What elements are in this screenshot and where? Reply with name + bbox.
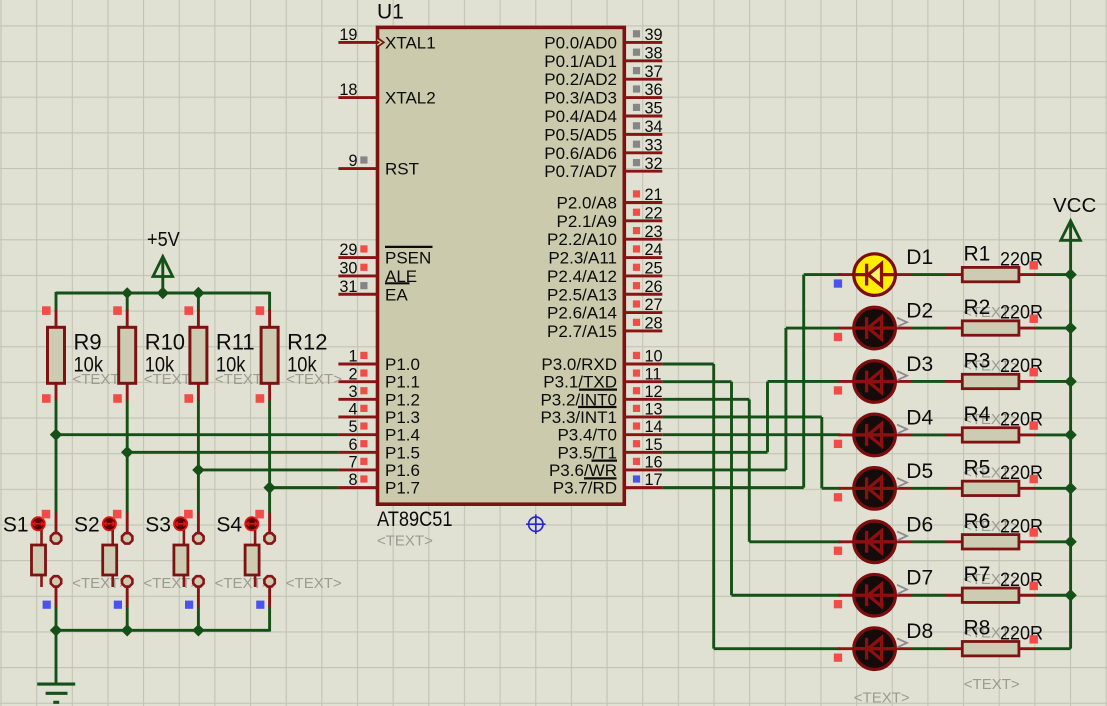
svg-text:<TEXT>: <TEXT> bbox=[286, 575, 342, 592]
pin 23 indicator square bbox=[633, 227, 640, 234]
pin 3 P1.2 stub bbox=[338, 398, 377, 401]
svg-text:R11: R11 bbox=[216, 329, 255, 354]
pin 34 indicator square bbox=[633, 122, 640, 129]
pin 8 P1.7 stub bbox=[338, 486, 377, 489]
button S1 indicator square bbox=[42, 510, 51, 519]
resistor R5 lead left bbox=[946, 487, 963, 490]
button S1 contact top bbox=[51, 533, 61, 543]
wire R10 to S2 node bbox=[126, 400, 129, 513]
svg-text:38: 38 bbox=[645, 44, 663, 62]
resistor R3 lead left bbox=[946, 380, 963, 383]
pin 30 ALE stub bbox=[338, 274, 377, 277]
LED D5 body bbox=[854, 468, 896, 510]
button S1 plunger rod bbox=[40, 528, 43, 587]
pin 28 P2.7/A15 stub bbox=[625, 330, 663, 333]
button S3 contact top bbox=[193, 533, 203, 543]
LED D2 diode symbol bbox=[854, 317, 895, 339]
svg-text:P3.3/INT1: P3.3/INT1 bbox=[540, 408, 617, 427]
pin 36 P0.3/AD3 stub bbox=[625, 96, 663, 99]
LED D7 body bbox=[854, 574, 896, 616]
pin 26 indicator square bbox=[633, 282, 640, 289]
R10 indicator square bottom bbox=[113, 394, 122, 403]
R11 indicator square top bbox=[184, 306, 193, 315]
wire P3.1 horizontal bbox=[662, 380, 731, 383]
svg-text:EA: EA bbox=[385, 285, 408, 304]
junction S1 node bbox=[50, 428, 62, 440]
svg-text:D5: D5 bbox=[906, 460, 933, 483]
LED D2 state square bbox=[834, 333, 842, 341]
wire P3.2 vertical bbox=[748, 399, 751, 541]
LED D8 state square bbox=[834, 653, 842, 661]
svg-text:19: 19 bbox=[339, 26, 357, 44]
resistor R5 lead right bbox=[1019, 487, 1036, 490]
button S2 state square bbox=[114, 601, 122, 609]
wire P3.6 vertical bbox=[784, 328, 787, 470]
junction VCC rail row D2 bbox=[1064, 322, 1076, 334]
pin 14 indicator square bbox=[633, 422, 640, 429]
pin 35 P0.4/AD4 stub bbox=[625, 115, 663, 118]
button S3 actuator bbox=[174, 517, 187, 530]
svg-text:PSEN: PSEN bbox=[385, 249, 431, 268]
resistor R3 body bbox=[962, 374, 1019, 388]
wire ground rail bbox=[56, 629, 270, 632]
svg-text:24: 24 bbox=[645, 241, 663, 259]
wire to D5 bbox=[822, 487, 841, 490]
pin 25 P2.4/A12 stub bbox=[625, 274, 663, 277]
junction +5V rail at +5V stem bbox=[157, 287, 169, 299]
pin 21 indicator square bbox=[633, 190, 640, 197]
LED D8 emission mark bbox=[897, 638, 907, 647]
svg-text:<TEXT>: <TEXT> bbox=[377, 532, 433, 549]
LED D4 lead right bbox=[893, 433, 912, 436]
svg-text:D7: D7 bbox=[906, 567, 933, 590]
svg-text:U1: U1 bbox=[377, 1, 404, 24]
svg-text:P0.1/AD1: P0.1/AD1 bbox=[544, 52, 617, 71]
pin 38 indicator square bbox=[633, 49, 640, 56]
svg-text:2: 2 bbox=[348, 365, 357, 383]
LED D2 lead right bbox=[893, 327, 912, 330]
junction ground rail bbox=[50, 624, 62, 636]
svg-text:3: 3 bbox=[348, 383, 357, 401]
wire S4 to ground rail bbox=[268, 606, 271, 632]
svg-text:R3: R3 bbox=[964, 349, 991, 372]
R6 indicator square bbox=[1030, 528, 1038, 536]
svg-text:D4: D4 bbox=[906, 406, 933, 429]
svg-text:R9: R9 bbox=[74, 329, 102, 354]
R7 indicator square bbox=[1030, 582, 1038, 590]
button S1 contact bottom bbox=[51, 576, 61, 586]
overline WR (under T1) bbox=[592, 460, 618, 462]
pin 13 indicator square bbox=[633, 405, 640, 412]
button S1 lead top bbox=[55, 513, 58, 533]
svg-text:P1.0: P1.0 bbox=[385, 355, 420, 374]
wire to D6 bbox=[749, 540, 840, 543]
resistor R1 body bbox=[962, 267, 1019, 281]
junction VCC rail row D5 bbox=[1064, 482, 1076, 494]
svg-text:P0.7/AD7: P0.7/AD7 bbox=[544, 162, 617, 181]
wire S1 to ground rail bbox=[55, 606, 58, 632]
wire P3.7 vertical bbox=[802, 275, 805, 488]
resistor R10 body bbox=[119, 327, 136, 383]
svg-text:37: 37 bbox=[645, 63, 663, 81]
LED D6 body bbox=[854, 521, 896, 563]
wire ground stem bbox=[55, 630, 58, 684]
svg-text:P2.7/A15: P2.7/A15 bbox=[547, 322, 617, 341]
svg-text:R4: R4 bbox=[964, 403, 991, 426]
R2 indicator square bbox=[1030, 315, 1038, 323]
wire to D3 bbox=[768, 380, 841, 383]
LED D2 emission mark bbox=[897, 318, 907, 327]
LED D7 lead left bbox=[839, 594, 857, 597]
pin 11 P3.1/TXD stub bbox=[625, 380, 663, 383]
button S4 contact bottom bbox=[264, 576, 274, 586]
svg-text:P2.6/A14: P2.6/A14 bbox=[547, 304, 617, 323]
pin 6 indicator square bbox=[360, 440, 367, 447]
button S3 indicator square bbox=[184, 510, 193, 519]
svg-text:P2.1/A9: P2.1/A9 bbox=[557, 212, 618, 231]
pin 29 PSEN stub bbox=[338, 256, 377, 259]
button S4 actuator bbox=[245, 517, 258, 530]
button S2 plunger rod bbox=[111, 528, 114, 587]
button S4 indicator square bbox=[255, 510, 264, 519]
resistor R8 lead left bbox=[946, 647, 963, 650]
pin 15 P3.5/T1 stub bbox=[625, 451, 663, 454]
wire D5 to R5 bbox=[912, 487, 946, 490]
wire +5V stem bbox=[161, 258, 164, 293]
svg-text:D3: D3 bbox=[906, 353, 933, 376]
svg-text:16: 16 bbox=[645, 454, 663, 472]
resistor R7 lead right bbox=[1019, 594, 1036, 597]
button S1 actuator bbox=[32, 517, 45, 530]
wire P3.5 vertical bbox=[766, 381, 769, 452]
R1 indicator square bbox=[1030, 261, 1038, 269]
pin 15 indicator square bbox=[633, 440, 640, 447]
R3 indicator square bbox=[1030, 368, 1038, 376]
pin 23 P2.2/A10 stub bbox=[625, 238, 663, 241]
svg-text:P3.7/RD: P3.7/RD bbox=[553, 479, 617, 498]
R11 indicator square bottom bbox=[184, 394, 193, 403]
LED D8 lead right bbox=[893, 647, 912, 650]
resistor R3 lead right bbox=[1019, 380, 1036, 383]
overline INT1 (under INT0) bbox=[578, 406, 617, 408]
svg-text:P0.6/AD6: P0.6/AD6 bbox=[544, 144, 617, 163]
svg-text:R10: R10 bbox=[145, 329, 185, 354]
pin 9 RST stub bbox=[338, 167, 377, 170]
wire D6 to R6 bbox=[912, 540, 946, 543]
overline INT0 (under TXD) bbox=[579, 389, 617, 391]
pin 10 indicator square bbox=[633, 352, 640, 359]
svg-text:14: 14 bbox=[645, 418, 663, 436]
svg-text:11: 11 bbox=[645, 365, 662, 383]
button S3 contact bottom bbox=[193, 576, 203, 586]
power symbol VCC bbox=[1069, 223, 1072, 241]
svg-text:29: 29 bbox=[339, 241, 357, 259]
wire rail to R12 bbox=[268, 292, 271, 311]
wire P3.3 vertical bbox=[820, 417, 823, 488]
LED D4 lead left bbox=[839, 433, 857, 436]
junction ground rail bbox=[192, 624, 204, 636]
pin 16 P3.6/WR stub bbox=[625, 469, 663, 472]
wire R12 to S4 node bbox=[268, 400, 271, 513]
button S3 lead top bbox=[197, 513, 200, 533]
resistor R12 body bbox=[261, 327, 278, 383]
svg-text:P3.0/RXD: P3.0/RXD bbox=[541, 355, 617, 374]
button S2 lead top bbox=[126, 513, 129, 533]
LED D4 emission mark bbox=[897, 425, 907, 434]
button S1 plunger body bbox=[32, 545, 46, 575]
svg-text:R6: R6 bbox=[964, 510, 991, 533]
wire D1 to R1 bbox=[912, 273, 946, 276]
wire R4 to VCC rail bbox=[1036, 433, 1071, 436]
pin 31 indicator square bbox=[360, 282, 367, 289]
junction S2 node bbox=[121, 446, 133, 458]
svg-text:P0.5/AD5: P0.5/AD5 bbox=[544, 125, 617, 144]
LED D1 state square bbox=[834, 279, 842, 287]
resistor R9 lead top bbox=[55, 310, 58, 329]
button S2 contact bottom bbox=[122, 576, 132, 586]
svg-text:10k: 10k bbox=[145, 353, 175, 376]
pin 8 indicator square bbox=[360, 475, 367, 482]
svg-text:12: 12 bbox=[645, 383, 663, 401]
LED D3 emission mark bbox=[897, 371, 907, 380]
pin 34 P0.5/AD5 stub bbox=[625, 133, 663, 136]
LED D3 diode symbol bbox=[854, 370, 895, 392]
pin 17 indicator square bbox=[633, 475, 640, 482]
button S3 plunger body bbox=[174, 545, 188, 575]
resistor R5 body bbox=[962, 481, 1019, 495]
origin marker bbox=[526, 514, 546, 534]
R9 indicator square bottom bbox=[42, 394, 51, 403]
pin 7 P1.6 stub bbox=[338, 469, 377, 472]
svg-text:4: 4 bbox=[348, 401, 357, 419]
resistor R10 lead top bbox=[126, 310, 129, 329]
resistor R6 lead right bbox=[1019, 540, 1036, 543]
ground symbol bbox=[37, 684, 75, 702]
resistor R7 body bbox=[962, 588, 1019, 602]
pin 32 indicator square bbox=[633, 159, 640, 166]
LED D4 body bbox=[854, 414, 896, 456]
junction ground rail bbox=[121, 624, 133, 636]
svg-text:18: 18 bbox=[339, 81, 357, 99]
button S1 lead bottom bbox=[55, 588, 58, 607]
LED D5 lead left bbox=[839, 487, 857, 490]
pin 21 P2.0/A8 stub bbox=[625, 201, 663, 204]
resistor R2 lead left bbox=[946, 327, 963, 330]
LED D2 body bbox=[854, 307, 896, 349]
pin 30 indicator square bbox=[360, 264, 367, 271]
resistor R11 lead bottom bbox=[197, 382, 200, 401]
LED D2 lead left bbox=[839, 327, 857, 330]
svg-text:P1.1: P1.1 bbox=[385, 373, 420, 392]
LED D5 state square bbox=[834, 493, 842, 501]
button S2 plunger body bbox=[103, 545, 117, 575]
LED D6 lead right bbox=[893, 540, 912, 543]
pin 36 indicator square bbox=[633, 85, 640, 92]
svg-text:33: 33 bbox=[645, 136, 663, 154]
junction VCC rail row D7 bbox=[1064, 589, 1076, 601]
overline PSEN bbox=[385, 246, 433, 248]
pin 38 P0.1/AD1 stub bbox=[625, 59, 663, 62]
pin 22 indicator square bbox=[633, 209, 640, 216]
resistor R4 body bbox=[962, 428, 1019, 442]
svg-text:P0.2/AD2: P0.2/AD2 bbox=[544, 70, 617, 89]
wire R7 to VCC rail bbox=[1036, 594, 1071, 597]
svg-text:S1: S1 bbox=[3, 514, 29, 537]
pin 32 P0.7/AD7 stub bbox=[625, 170, 663, 173]
LED D7 lead right bbox=[893, 594, 912, 597]
pin 24 indicator square bbox=[633, 245, 640, 252]
wire R9 to S1 node bbox=[55, 400, 58, 513]
pin 10 P3.0/RXD stub bbox=[625, 363, 663, 366]
resistor R11 lead top bbox=[197, 310, 200, 329]
svg-text:9: 9 bbox=[348, 152, 357, 170]
svg-text:P3.4/T0: P3.4/T0 bbox=[557, 426, 617, 445]
svg-text:P2.3/A11: P2.3/A11 bbox=[548, 249, 617, 268]
LED D7 diode symbol bbox=[854, 584, 895, 606]
LED D4 diode symbol bbox=[854, 424, 895, 446]
resistor R12 lead top bbox=[268, 310, 271, 329]
LED D1 body bbox=[854, 254, 896, 296]
resistor R2 body bbox=[962, 321, 1019, 335]
pin 24 P2.3/A11 stub bbox=[625, 256, 663, 259]
wire P3.7 horizontal bbox=[662, 486, 803, 489]
svg-text:S4: S4 bbox=[216, 514, 242, 537]
wire P3.1 vertical bbox=[730, 382, 733, 596]
wire P3.4 to D4 bbox=[662, 433, 840, 436]
pin 31 EA stub bbox=[338, 293, 377, 296]
wire R6 to VCC rail bbox=[1036, 540, 1071, 543]
junction VCC rail row D1 bbox=[1064, 268, 1076, 280]
pin 6 P1.5 stub bbox=[338, 451, 377, 454]
pin 28 indicator square bbox=[633, 319, 640, 326]
svg-text:31: 31 bbox=[339, 278, 357, 296]
wire D7 to R7 bbox=[912, 594, 946, 597]
svg-text:R7: R7 bbox=[964, 563, 991, 586]
LED D7 emission mark bbox=[897, 585, 907, 594]
svg-text:35: 35 bbox=[645, 100, 663, 118]
svg-text:34: 34 bbox=[645, 118, 663, 136]
wire R8 to VCC rail bbox=[1036, 647, 1071, 650]
R10 indicator square top bbox=[113, 306, 122, 315]
wire VCC rail vertical bbox=[1069, 239, 1072, 648]
svg-text:<TEXT>: <TEXT> bbox=[854, 690, 910, 706]
svg-text:D1: D1 bbox=[906, 246, 933, 269]
button S2 indicator square bbox=[113, 510, 122, 519]
pin 2 P1.1 stub bbox=[338, 380, 377, 383]
wire to D8 bbox=[714, 647, 841, 650]
svg-text:15: 15 bbox=[645, 436, 663, 454]
pin 2 indicator square bbox=[360, 369, 367, 376]
junction VCC rail row D6 bbox=[1064, 536, 1076, 548]
pin 7 indicator square bbox=[360, 458, 367, 465]
wire +5V rail bbox=[56, 292, 270, 295]
button S3 state square bbox=[185, 601, 193, 609]
svg-text:P0.0/AD0: P0.0/AD0 bbox=[544, 33, 617, 52]
button S4 plunger rod bbox=[254, 528, 257, 587]
svg-text:R5: R5 bbox=[964, 456, 991, 479]
svg-text:1: 1 bbox=[348, 348, 357, 366]
wire node S1 to P1.4 bbox=[56, 433, 338, 436]
pin 26 P2.5/A13 stub bbox=[625, 293, 663, 296]
wire R11 to S3 node bbox=[197, 400, 200, 513]
R9 indicator square top bbox=[42, 306, 51, 315]
svg-text:<TEXT>: <TEXT> bbox=[143, 575, 199, 592]
resistor R8 lead right bbox=[1019, 647, 1036, 650]
button S1 state square bbox=[43, 601, 51, 609]
LED D3 lead left bbox=[839, 380, 857, 383]
junction S4 node bbox=[263, 481, 275, 493]
pin 33 P0.6/AD6 stub bbox=[625, 151, 663, 154]
wire to D2 bbox=[786, 327, 841, 330]
wire R5 to VCC rail bbox=[1036, 487, 1071, 490]
pin 27 P2.6/A14 stub bbox=[625, 311, 663, 314]
LED D7 state square bbox=[834, 600, 842, 608]
LED D6 lead left bbox=[839, 540, 857, 543]
clock input chevron XTAL1 bbox=[376, 36, 385, 49]
pin 37 indicator square bbox=[633, 67, 640, 74]
pin 1 P1.0 stub bbox=[338, 363, 377, 366]
svg-text:7: 7 bbox=[348, 454, 357, 472]
svg-text:6: 6 bbox=[348, 436, 357, 454]
svg-text:<TEXT>: <TEXT> bbox=[215, 575, 271, 592]
LED D6 state square bbox=[834, 547, 842, 555]
svg-text:P2.4/A12: P2.4/A12 bbox=[547, 267, 617, 286]
junction S3 node bbox=[192, 464, 204, 476]
svg-text:S3: S3 bbox=[145, 514, 171, 537]
svg-text:RST: RST bbox=[385, 160, 419, 179]
pin 12 indicator square bbox=[633, 387, 640, 394]
wire D3 to R3 bbox=[912, 380, 946, 383]
LED D1 lead left bbox=[839, 273, 857, 276]
svg-text:XTAL2: XTAL2 bbox=[385, 89, 436, 108]
svg-text:P0.3/AD3: P0.3/AD3 bbox=[544, 89, 617, 108]
IC U1 AT89C51 body bbox=[378, 27, 625, 504]
button S4 plunger body bbox=[245, 545, 259, 575]
button S4 contact top bbox=[264, 533, 274, 543]
svg-text:P2.5/A13: P2.5/A13 bbox=[547, 285, 617, 304]
resistor R12 lead bottom bbox=[268, 382, 271, 401]
pin 5 P1.4 stub bbox=[338, 433, 377, 436]
wire S3 to ground rail bbox=[197, 606, 200, 632]
pin 25 indicator square bbox=[633, 264, 640, 271]
LED D1 lead right bbox=[893, 273, 912, 276]
svg-text:25: 25 bbox=[645, 260, 663, 278]
svg-text:+5V: +5V bbox=[147, 229, 180, 251]
svg-text:10k: 10k bbox=[216, 353, 246, 376]
overline EA (under ALE) bbox=[385, 282, 410, 284]
pin 3 indicator square bbox=[360, 387, 367, 394]
pin 37 P0.2/AD2 stub bbox=[625, 78, 663, 81]
pin 1 indicator square bbox=[360, 352, 367, 359]
wire D2 to R2 bbox=[912, 327, 946, 330]
svg-text:8: 8 bbox=[348, 471, 357, 489]
pin 35 indicator square bbox=[633, 104, 640, 111]
wire rail to R11 bbox=[197, 292, 200, 311]
svg-text:23: 23 bbox=[645, 223, 663, 241]
wire node S3 to P1.6 bbox=[198, 469, 338, 472]
svg-text:P2.2/A10: P2.2/A10 bbox=[547, 230, 617, 249]
pin 22 P2.1/A9 stub bbox=[625, 219, 663, 222]
resistor R9 body bbox=[48, 327, 65, 383]
wire P3.0 horizontal bbox=[662, 363, 713, 366]
wire to D7 bbox=[732, 594, 841, 597]
wire node S2 to P1.5 bbox=[127, 451, 338, 454]
LED D8 body bbox=[854, 628, 896, 670]
resistor R2 lead right bbox=[1019, 327, 1036, 330]
svg-text:P1.7: P1.7 bbox=[385, 479, 420, 498]
LED D6 emission mark bbox=[897, 531, 907, 540]
wire D4 to R4 bbox=[912, 433, 946, 436]
